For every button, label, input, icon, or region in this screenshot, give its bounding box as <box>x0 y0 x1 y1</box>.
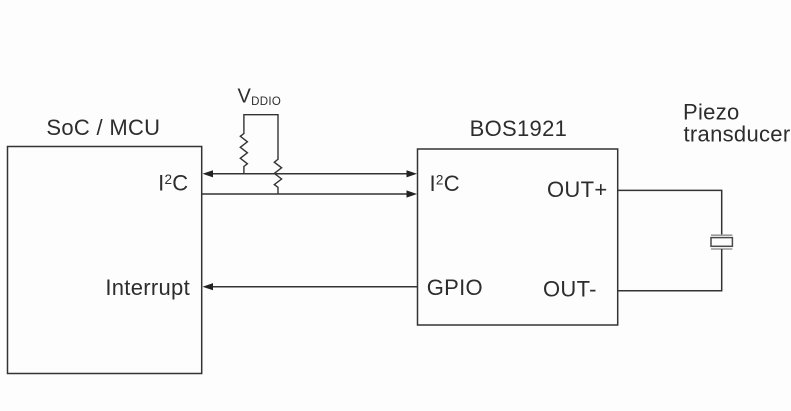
svg-text:OUT+: OUT+ <box>547 177 608 202</box>
svg-text:SoC / MCU: SoC / MCU <box>46 115 160 140</box>
VDDIO supply rail <box>244 115 278 158</box>
wire OUT- <box>618 249 722 291</box>
resistor R2 (pull-up, right) <box>274 158 281 194</box>
svg-text:GPIO: GPIO <box>427 275 483 300</box>
piezo transducer element X1 <box>711 235 732 249</box>
wire I2C line 2 <box>202 190 417 197</box>
svg-text:Interrupt: Interrupt <box>105 275 190 300</box>
svg-text:OUT-: OUT- <box>543 277 597 302</box>
svg-text:I2C: I2C <box>158 171 188 196</box>
BOS1921 box U2 <box>418 149 618 325</box>
SoC / MCU box U1 <box>8 147 202 374</box>
svg-text:BOS1921: BOS1921 <box>470 116 568 141</box>
wire OUT+ <box>618 190 722 235</box>
svg-text:transducer: transducer <box>684 122 791 147</box>
label Piezo transducer <box>683 100 790 147</box>
resistor R1 (pull-up, left) <box>240 132 247 174</box>
wire interrupt (GPIO to Interrupt) <box>203 283 418 290</box>
wire I2C line 1 (bidirectional) <box>203 170 418 177</box>
svg-text:I2C: I2C <box>430 171 460 196</box>
